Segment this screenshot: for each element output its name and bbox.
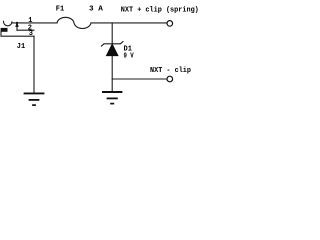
svg-text:J1: J1 (17, 43, 26, 51)
wire pin1 line / top rail left segment (12, 22, 57, 24)
wire pin2 line (17, 29, 34, 31)
svg-text:NXT + clip (spring): NXT + clip (spring) (121, 6, 199, 14)
connector J1 switch arrow head (16, 23, 19, 27)
diode D1 zener bar with tails (101, 41, 123, 46)
diode D1 triangle (106, 44, 118, 56)
svg-text:9 V: 9 V (124, 53, 135, 61)
wire NXT minus branch (112, 78, 167, 80)
ground left (24, 93, 45, 105)
svg-text:F1: F1 (56, 6, 65, 14)
junction dot on pin1 (16, 22, 18, 24)
svg-text:3: 3 (29, 30, 33, 38)
terminal circle NXT - clip (167, 76, 173, 82)
svg-text:3 A: 3 A (89, 6, 103, 14)
wire pin3 down to ground (33, 36, 35, 92)
connector J1 barrel jack arc (center pin contact) (3, 21, 11, 26)
terminal circle NXT + clip (167, 21, 173, 27)
svg-text:NXT - clip: NXT - clip (150, 67, 191, 75)
wire zener branch vertical (111, 23, 113, 91)
ground right (102, 92, 122, 104)
wire top rail right segment (91, 22, 167, 24)
fuse F1 body (57, 17, 91, 28)
wire J1 switch pin2 stem (16, 24, 18, 30)
wire pin3 line from sleeve (1, 32, 34, 36)
connector J1 sleeve bar (1, 28, 8, 32)
